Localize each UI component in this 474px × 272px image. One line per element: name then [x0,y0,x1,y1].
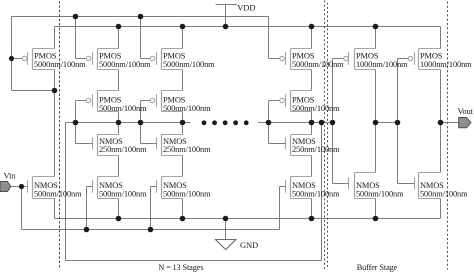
svg-text:500nm/100nm: 500nm/100nm [34,189,82,198]
svg-text:5000nm/100nm: 5000nm/100nm [99,60,151,69]
svg-text:500nm/100nm: 500nm/100nm [99,104,147,113]
svg-text:Buffer Stage: Buffer Stage [357,263,398,272]
svg-text:GND: GND [240,240,258,250]
svg-text:250nm/100nm: 250nm/100nm [99,145,147,154]
svg-text:500nm/100nm: 500nm/100nm [163,104,211,113]
svg-text:500nm/100nm: 500nm/100nm [292,189,340,198]
svg-text:500nm/100nm: 500nm/100nm [99,189,147,198]
svg-text:N = 13 Stages: N = 13 Stages [158,263,203,272]
svg-text:500nm/100nm: 500nm/100nm [292,104,340,113]
svg-text:500nm/100nm: 500nm/100nm [356,189,404,198]
svg-text:5000nm/100nm: 5000nm/100nm [292,60,344,69]
svg-text:250nm/100nm: 250nm/100nm [292,145,340,154]
svg-text:500nm/100nm: 500nm/100nm [163,189,211,198]
svg-text:1000nm/100nm: 1000nm/100nm [356,60,408,69]
svg-text:Vout: Vout [458,106,474,116]
svg-text:5000nm/100nm: 5000nm/100nm [163,60,215,69]
svg-text:500nm/100nm: 500nm/100nm [420,189,468,198]
svg-text:250nm/100nm: 250nm/100nm [163,145,211,154]
svg-text:Vin: Vin [4,170,17,180]
svg-text:5000nm/100nm: 5000nm/100nm [34,60,86,69]
svg-text:VDD: VDD [237,3,255,13]
svg-text:1000nm/100nm: 1000nm/100nm [420,60,472,69]
